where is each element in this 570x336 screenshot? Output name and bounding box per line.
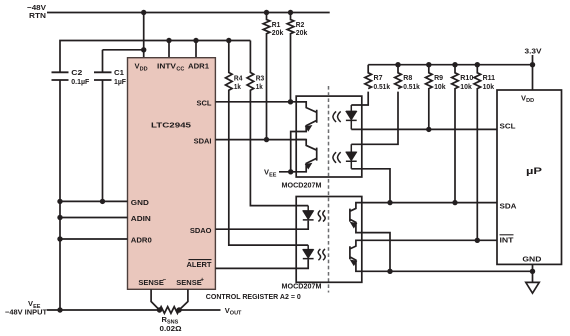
node junction dot R1 top rail: [264, 10, 269, 15]
node junction dot ADIN: [57, 215, 62, 220]
wire SENSE- lead: [151, 289, 159, 310]
pin ALERT label with overline: [187, 260, 212, 269]
LED opto A D1: [346, 105, 357, 129]
node VEE -48V INPUT label: [5, 299, 47, 317]
wire R8 to LED anode: [351, 92, 398, 145]
label R4 1k: [234, 73, 243, 91]
pin ADIN label: [131, 214, 151, 223]
node junction dot emitter to VEE: [288, 169, 293, 174]
svg-text:LTC2945: LTC2945: [151, 121, 191, 130]
svg-text:3.3V: 3.3V: [525, 47, 542, 56]
wire opto A upper emitter to VEE: [291, 132, 297, 172]
svg-text:ALERT: ALERT: [187, 260, 212, 269]
svg-text:R9: R9: [434, 73, 443, 82]
microprocessor uP box: [497, 90, 562, 264]
svg-text:C1: C1: [114, 68, 124, 77]
resistor R7 0.51k: [365, 65, 372, 89]
label C1 value: [114, 68, 126, 86]
LED opto A D2: [346, 144, 357, 169]
light arrows opto B D3: [318, 210, 325, 221]
svg-text:ADR1: ADR1: [188, 62, 209, 71]
svg-text:1k: 1k: [234, 82, 242, 91]
wire LED D2 cathode to SDA: [351, 169, 390, 203]
svg-text:OUT: OUT: [230, 311, 242, 317]
label R2 20k: [296, 20, 308, 37]
svg-text:R11: R11: [483, 73, 496, 82]
node junction dot VEE/C2: [57, 307, 62, 312]
node junction dot R9 top: [426, 62, 431, 67]
optocoupler U2 MOCD207M upper package: [296, 96, 362, 177]
svg-text:1µF: 1µF: [114, 77, 126, 86]
pin uP GND label: [522, 255, 542, 264]
node -48V RTN label: [27, 3, 46, 20]
svg-text:0.1µF: 0.1µF: [71, 77, 89, 86]
node junction dot R8 top: [395, 62, 400, 67]
node junction dot uP GND: [530, 269, 535, 274]
node junction dot C1 to VDD: [141, 47, 146, 52]
node junction dot INTVCC: [166, 38, 171, 43]
node junction dot VDD on top rail: [141, 10, 146, 15]
resistor R9 10k: [425, 65, 432, 130]
resistor R11 10k: [474, 65, 481, 241]
wire 3.3V rail: [368, 55, 532, 90]
node VEE label at opto: [264, 168, 277, 179]
svg-text:R7: R7: [374, 73, 383, 82]
node junction dot R4 top: [226, 38, 231, 43]
pin ADR0 label: [131, 236, 152, 245]
pin uP INT label with overline: [500, 235, 514, 244]
capacitor C1: [94, 72, 112, 201]
pin SDAI label: [194, 136, 212, 145]
svg-text:MOCD207M: MOCD207M: [282, 282, 322, 291]
wire INTVCC pin drop: [168, 41, 170, 58]
node junction dot RSNS right: [176, 307, 181, 312]
svg-text:C2: C2: [71, 68, 82, 77]
svg-text:INT: INT: [500, 235, 514, 244]
wire ground rail emitters to uP GND: [362, 270, 533, 272]
node junction dot R9 on SCL: [426, 127, 431, 132]
resistor R8 0.51k: [395, 65, 402, 89]
wire VEE bottom rail: [47, 309, 160, 311]
label R10 10k: [460, 73, 473, 91]
light arrows opto A D2: [333, 152, 341, 163]
label R3 1k: [256, 73, 265, 91]
wire ALERT from IC to opto LED cathode: [215, 259, 308, 268]
wire VEE to opto emitters: [279, 171, 296, 173]
svg-text:SENSE: SENSE: [138, 278, 163, 287]
svg-text:0.51k: 0.51k: [374, 82, 391, 91]
svg-text:20k: 20k: [296, 28, 308, 37]
wire SENSE+ lead: [179, 289, 188, 310]
wire SDAO from IC to opto LED cathode: [215, 221, 308, 229]
svg-text:−: −: [163, 278, 167, 284]
svg-text:SDAI: SDAI: [194, 136, 212, 145]
label R11 10k: [483, 73, 496, 91]
pin GND label: [131, 198, 150, 207]
wire VOUT: [179, 309, 220, 311]
wire VDD drop from top rail: [143, 13, 145, 58]
node junction dot ADR0: [57, 236, 62, 241]
node junction dot R1 on SDAI: [264, 137, 269, 142]
label RSNS value: [160, 315, 182, 333]
svg-text:0.51k: 0.51k: [403, 82, 420, 91]
resistor R3 1k: [247, 41, 308, 206]
label LTC2945: [151, 121, 191, 130]
capacitor C2: [52, 72, 69, 310]
node 3.3V label: [525, 47, 542, 56]
label R9 10k: [434, 73, 446, 91]
svg-text:20k: 20k: [272, 28, 284, 37]
pin INTVCC label: [157, 62, 184, 73]
svg-text:µP: µP: [526, 166, 543, 177]
svg-text:GND: GND: [522, 255, 542, 264]
svg-text:SENSE: SENSE: [176, 278, 201, 287]
svg-text:CC: CC: [176, 66, 184, 72]
svg-text:10k: 10k: [460, 82, 472, 91]
node junction dot R11 top: [475, 62, 480, 67]
LED opto B D4: [303, 245, 314, 259]
node junction dot R10 top: [452, 62, 457, 67]
pin ADR1 label: [188, 62, 209, 71]
label C2 value: [71, 68, 89, 86]
wire opto B Q3 emitter to ground rail: [362, 233, 390, 272]
resistor R1 20k: [263, 13, 270, 140]
node junction dot GND/C2: [57, 199, 62, 204]
svg-text:10k: 10k: [483, 82, 495, 91]
pin SENSE- label: [138, 278, 166, 288]
pin SENSE+ label: [176, 278, 204, 288]
wire R7 to LED anode: [351, 92, 368, 105]
svg-text:INTV: INTV: [157, 62, 176, 71]
label R8 0.51k: [403, 73, 420, 91]
svg-text:RTN: RTN: [29, 11, 46, 20]
node junction dot R2 on SCL: [288, 99, 293, 104]
light arrows opto A D1: [333, 111, 341, 122]
svg-text:0.02Ω: 0.02Ω: [160, 324, 182, 333]
label uP: [526, 166, 543, 177]
svg-text:DD: DD: [526, 98, 534, 104]
isolation barrier dashed line: [328, 86, 330, 293]
transistor opto A Q1 phototransistor: [296, 102, 317, 132]
node junction dot RSNS left: [157, 307, 162, 312]
transistor opto A Q2 phototransistor: [296, 140, 317, 172]
pin SDAO label: [190, 226, 212, 235]
node junction dot emitters join: [387, 269, 392, 274]
resistor R4 1k: [226, 41, 309, 246]
wire SDA from opto to uP: [362, 202, 497, 204]
resistor R10 10k: [452, 65, 459, 203]
svg-text:MOCD207M: MOCD207M: [282, 180, 322, 189]
pin uP SDA label: [500, 202, 518, 211]
resistor RSNS 0.02ohm: [160, 307, 180, 314]
svg-text:SDAO: SDAO: [190, 226, 212, 235]
LED opto B D3: [303, 206, 314, 221]
svg-text:10k: 10k: [434, 82, 446, 91]
node VOUT label: [225, 306, 242, 317]
pin uP VDD label: [521, 93, 534, 104]
wire GND to left vertical: [60, 200, 128, 202]
ground symbol: [526, 264, 539, 293]
wire ADR0: [60, 238, 128, 240]
svg-text:R10: R10: [460, 73, 473, 82]
label R1 20k: [272, 20, 284, 37]
svg-text:GND: GND: [131, 198, 150, 207]
node junction dot GND/C1: [100, 199, 105, 204]
wire INTVCC rail from C2: [60, 41, 250, 73]
svg-text:EE: EE: [269, 172, 277, 178]
IC LTC2945 body: [128, 58, 216, 290]
pin VDD label: [135, 62, 148, 73]
svg-text:1k: 1k: [256, 82, 264, 91]
node junction dot R2 top rail: [288, 10, 293, 15]
svg-text:R8: R8: [403, 73, 412, 82]
node junction dot R10 on SDA: [452, 200, 457, 205]
wire -48V RTN top rail: [47, 12, 330, 14]
label MOCD207M lower: [282, 282, 322, 291]
resistor R2 20k: [287, 13, 294, 102]
pin SCL label: [197, 98, 212, 107]
wire ADR1 pin drop: [195, 41, 197, 58]
wire ADIN: [60, 217, 128, 219]
label MOCD207M upper: [282, 180, 322, 189]
svg-text:+: +: [200, 278, 204, 284]
svg-text:CONTROL REGISTER A2 = 0: CONTROL REGISTER A2 = 0: [206, 292, 301, 301]
light arrows opto B D4: [318, 249, 325, 260]
svg-text:SCL: SCL: [500, 122, 516, 131]
transistor opto B Q3 phototransistor: [350, 203, 362, 233]
svg-text:−48V INPUT: −48V INPUT: [5, 308, 47, 317]
wire INT from opto to uP: [362, 239, 497, 241]
svg-text:SCL: SCL: [197, 98, 212, 107]
node junction dot LED cathode on SDA: [387, 200, 392, 205]
wire SCL isolated to uP: [351, 128, 497, 130]
node junction dot ADR1: [193, 38, 198, 43]
svg-text:ADIN: ADIN: [131, 214, 151, 223]
node junction dot R11 on INT: [475, 238, 480, 243]
optocoupler U3 MOCD207M lower package: [296, 197, 362, 283]
svg-text:ADR0: ADR0: [131, 236, 152, 245]
wire C1 top to VDD line: [103, 50, 144, 73]
transistor opto B Q4 phototransistor: [350, 240, 362, 271]
wire SCL from IC to opto: [215, 101, 306, 103]
pin uP SCL label: [500, 122, 516, 131]
node junction dot 3.3V: [530, 62, 535, 67]
label CONTROL REGISTER A2 = 0: [206, 292, 301, 301]
svg-text:SDA: SDA: [500, 202, 518, 211]
label R7 0.51k: [374, 73, 391, 91]
svg-text:DD: DD: [140, 66, 148, 72]
wire SDAI from IC to opto: [215, 139, 306, 141]
